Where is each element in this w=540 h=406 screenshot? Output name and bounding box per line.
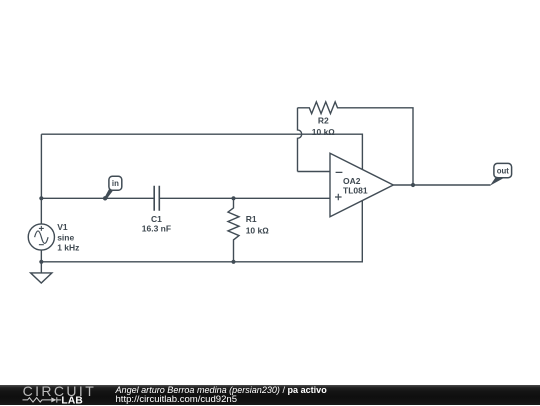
svg-text:16.3 nF: 16.3 nF [142, 224, 171, 234]
svg-text:TL081: TL081 [343, 185, 368, 195]
svg-text:V1: V1 [57, 222, 68, 232]
svg-text:sine: sine [57, 232, 74, 242]
svg-text:CIRCUIT: CIRCUIT [23, 385, 97, 399]
svg-text:C1: C1 [151, 214, 162, 224]
svg-text:R2: R2 [318, 115, 329, 125]
svg-text:10 kΩ: 10 kΩ [246, 226, 270, 236]
svg-text:10 kΩ: 10 kΩ [312, 127, 336, 137]
svg-text:1 kHz: 1 kHz [57, 243, 79, 253]
svg-text:out: out [497, 167, 510, 176]
svg-text:in: in [112, 179, 119, 188]
svg-text:R1: R1 [246, 214, 257, 224]
svg-text:LAB: LAB [61, 395, 83, 405]
